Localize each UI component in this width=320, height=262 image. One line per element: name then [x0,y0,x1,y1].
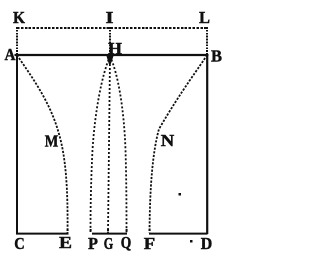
svg-text:D: D [201,234,213,253]
wire: dotted vertical K-A [16,27,18,55]
svg-text:N: N [161,131,175,150]
svg-text:L: L [199,8,210,27]
curve: dotted H to Q [110,56,127,233]
landing dot above P [90,229,92,231]
landing dot above E [67,229,69,231]
svg-text:K: K [13,8,25,27]
curve N: dotted curve B to F [150,55,208,233]
landing dot above Q [126,229,128,231]
wire: solid line A-B [15,54,209,56]
svg-text:E: E [59,233,72,252]
stray speck near N curve [179,193,182,196]
svg-text:M: M [45,132,59,151]
svg-text:B: B [211,47,222,66]
wire: solid right edge B-D [206,55,208,234]
svg-text:A: A [5,45,16,64]
curve M: dotted curve A to E [17,55,68,233]
junction wedge at H [107,56,114,64]
curve: dotted H to P [91,56,111,233]
wire: dotted top line K-I-L [17,27,207,29]
wire: dotted H to G [108,56,110,233]
stray speck before D [190,240,193,243]
wire: bottom segment C-E [16,233,69,235]
landing dot above G [107,229,109,231]
svg-text:H: H [108,39,122,58]
svg-text:G: G [104,234,114,253]
landing dot above F [149,229,151,231]
wire: dotted vertical L-B [206,27,208,55]
svg-text:Q: Q [121,233,132,252]
svg-text:C: C [14,234,25,253]
wire: dotted vertical I-H [109,27,111,55]
wire: bottom segment F-D [149,233,208,235]
svg-text:P: P [88,234,98,253]
svg-text:F: F [144,234,156,253]
wire: solid left edge A-C [16,55,18,234]
svg-text:I: I [106,8,114,27]
wire: bottom segment P-Q [92,233,127,235]
